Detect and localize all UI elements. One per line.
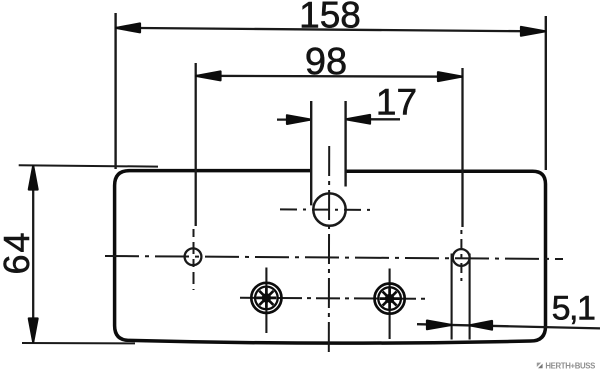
dim 98 arrow right	[438, 72, 462, 81]
dim 5,1 line	[417, 324, 600, 328]
center hole horizontal centerline	[280, 208, 374, 211]
right hole	[453, 249, 470, 266]
svg-text:98: 98	[305, 41, 347, 83]
dim 64 bottom extension line	[22, 342, 135, 344]
right slot wall left	[451, 254, 453, 340]
dim 17 line right part	[346, 118, 400, 120]
dim 64 line	[32, 166, 34, 342]
dim 64 top extension line	[19, 165, 158, 166]
right slot wall right	[469, 254, 471, 340]
screw 2	[375, 284, 405, 314]
dim 98 line	[196, 75, 463, 78]
right hole vertical centerline	[460, 230, 462, 281]
center hole	[313, 193, 345, 225]
dim 158 arrow left	[116, 24, 140, 33]
dim 64 arrow top	[29, 166, 38, 190]
main horizontal centerline	[105, 256, 563, 259]
dim 98 extension line right	[461, 68, 463, 227]
logo herth+buss	[537, 361, 595, 370]
dim 17 arrow right (points left)	[346, 115, 370, 124]
dim 17 line left part	[277, 118, 311, 120]
dim 17 arrow left (points right)	[287, 115, 311, 124]
dim 158 line	[116, 28, 546, 32]
slot left wall / 17 extension	[310, 101, 312, 205]
screw 1 vertical centerline	[265, 268, 267, 334]
screws horizontal centerline	[240, 298, 428, 299]
svg-text:17: 17	[376, 82, 417, 123]
dim 5,1 arrow left (points right)	[427, 321, 451, 330]
dim 98 extension line left	[195, 63, 197, 226]
dim 158 extension line right	[545, 16, 547, 170]
left hole	[185, 248, 202, 265]
part vertical centerline	[328, 146, 330, 355]
dim 98 arrow left	[196, 72, 220, 81]
left hole vertical centerline	[193, 229, 195, 290]
dim 64 arrow bottom	[29, 319, 38, 343]
dim 5,1 arrow right (points left)	[470, 321, 492, 330]
svg-text:158: 158	[299, 0, 361, 36]
dim 158 extension line left	[114, 13, 116, 169]
body outline	[115, 171, 546, 344]
screw 2 vertical centerline	[389, 269, 391, 340]
screw 1	[251, 283, 281, 313]
svg-text:5,1: 5,1	[552, 290, 595, 328]
svg-text:64: 64	[0, 230, 37, 274]
slot right wall / 17 extension	[344, 101, 346, 187]
svg-text:HERTH+BUSS: HERTH+BUSS	[545, 361, 595, 370]
dim 158 arrow right	[521, 27, 545, 36]
